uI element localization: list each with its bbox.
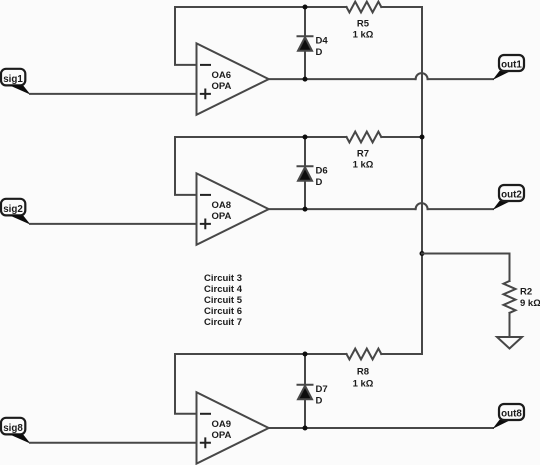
wire R5 to bus corner <box>381 6 422 8</box>
svg-text:sig1: sig1 <box>3 74 23 85</box>
wire vertical bus <box>421 7 423 354</box>
svg-text:D: D <box>316 177 323 188</box>
node out2 <box>493 185 525 210</box>
wire sig1 to OA6 + input <box>30 93 197 95</box>
junction dot D7 top <box>303 352 308 357</box>
wire to out1 <box>428 78 493 80</box>
svg-text:R5: R5 <box>357 19 370 30</box>
op-amp OA6 <box>197 43 269 115</box>
node sig2 <box>1 199 31 225</box>
text circuit list <box>204 273 243 328</box>
wire sig8 to OA9 + input <box>30 442 197 444</box>
resistor R8 <box>347 349 382 390</box>
junction dot bus/R2 branch <box>420 251 425 256</box>
wire R2 to ground <box>509 313 511 337</box>
svg-text:out2: out2 <box>501 189 522 200</box>
junction dot D6 bottom <box>303 207 308 212</box>
wire sig2 to OA8 + input <box>30 223 197 225</box>
wire OA8 feedback left/top <box>175 137 347 195</box>
wire OA6 output <box>269 78 416 80</box>
wire OA9 output <box>269 427 493 429</box>
wire OA9 feedback left/top <box>175 354 347 414</box>
svg-text:1 kΩ: 1 kΩ <box>353 160 374 171</box>
node sig1 <box>1 69 31 95</box>
ground <box>497 337 522 349</box>
svg-text:out8: out8 <box>501 408 522 419</box>
resistor R2 <box>504 281 540 313</box>
svg-text:Circuit 6: Circuit 6 <box>204 306 242 317</box>
junction dot D4 top <box>303 5 308 10</box>
wire hop over bus (out1) <box>416 73 428 79</box>
diode D7 <box>298 354 328 428</box>
svg-text:OA6: OA6 <box>212 70 232 81</box>
node out8 <box>493 404 525 429</box>
resistor R7 <box>347 132 382 171</box>
op-amp OA8 <box>197 173 269 245</box>
resistor R5 <box>347 2 382 41</box>
svg-text:R8: R8 <box>357 367 369 378</box>
junction dot D7 bottom <box>303 426 308 431</box>
svg-text:Circuit 7: Circuit 7 <box>204 317 242 328</box>
svg-text:sig2: sig2 <box>3 204 23 215</box>
svg-text:OA8: OA8 <box>212 200 232 211</box>
svg-text:D4: D4 <box>316 36 329 47</box>
svg-text:Circuit 5: Circuit 5 <box>204 295 243 306</box>
svg-text:OPA: OPA <box>212 211 232 222</box>
svg-text:Circuit 3: Circuit 3 <box>204 273 242 284</box>
junction dot bus/R7 wire <box>420 135 425 140</box>
wire R7 to bus <box>381 136 422 138</box>
svg-text:R7: R7 <box>357 149 369 160</box>
wire OA6 feedback left/top <box>175 7 347 65</box>
wire OA8 output <box>269 208 416 210</box>
svg-text:OA9: OA9 <box>212 419 232 430</box>
node out1 <box>493 55 525 80</box>
op-amp OA9 <box>197 392 269 464</box>
wire R8 to bus corner <box>381 353 422 355</box>
svg-text:D: D <box>316 47 323 58</box>
svg-text:D: D <box>316 396 323 407</box>
svg-text:out1: out1 <box>501 59 522 70</box>
svg-text:9 kΩ: 9 kΩ <box>520 298 540 309</box>
junction dot D4 bottom <box>303 77 308 82</box>
wire to out2 <box>428 208 493 210</box>
svg-text:Circuit 4: Circuit 4 <box>204 284 243 295</box>
svg-text:sig8: sig8 <box>3 423 23 434</box>
svg-text:D6: D6 <box>316 166 328 177</box>
svg-text:1 kΩ: 1 kΩ <box>353 30 374 41</box>
svg-text:OPA: OPA <box>212 81 232 92</box>
wire hop over bus (out2) <box>416 203 428 209</box>
wire bus to R2 <box>422 254 510 282</box>
node sig8 <box>1 418 31 444</box>
diode D4 <box>298 7 329 79</box>
svg-text:OPA: OPA <box>212 430 232 441</box>
svg-text:D7: D7 <box>316 384 328 395</box>
svg-text:1 kΩ: 1 kΩ <box>353 379 374 390</box>
svg-text:R2: R2 <box>520 287 532 298</box>
diode D6 <box>298 137 328 209</box>
junction dot D6 top <box>303 135 308 140</box>
